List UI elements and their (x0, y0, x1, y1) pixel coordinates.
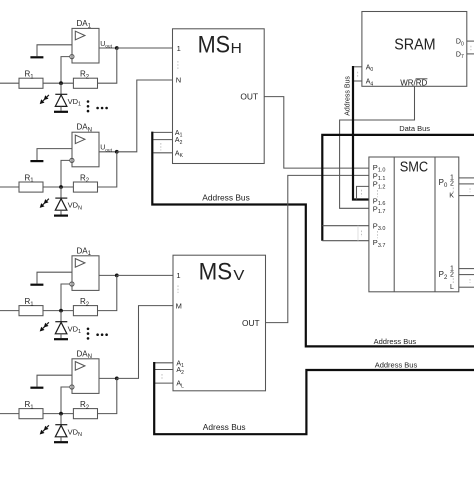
SMC P1 stub-box ellipsis (361, 190, 363, 197)
MSV input ellipsis (177, 285, 179, 293)
wire photodiode to ground (channel 4) (60, 437, 62, 441)
ground (channel 4) (30, 387, 43, 389)
wire op-amp U4 non-inverting input to ground (37, 375, 72, 386)
svg-text:Address Bus: Address Bus (202, 192, 249, 202)
light arrow 2 (channel 3) (43, 326, 45, 328)
SMC P2 pin L stub (459, 286, 474, 288)
wire node to photodiode (channel 3) (60, 311, 62, 322)
wire R1 to node to R2 (channel 2) (43, 186, 73, 188)
SMC P0 pin K stub (459, 195, 474, 197)
SMC P2 pin 2 stub (459, 274, 474, 276)
wire feedback from output to R2 (channel 2) (98, 152, 117, 187)
svg-text:Data Bus: Data Bus (399, 124, 430, 133)
ground below photodiode (channel 2) (54, 215, 68, 217)
wire node to photodiode (channel 2) (60, 187, 62, 198)
address bus to SRAM A0-A4 (thick) (353, 66, 369, 200)
node summing junction (channel 1) (59, 81, 63, 85)
wire photodiode to ground (channel 2) (60, 210, 62, 214)
MSV address pins ellipsis (161, 374, 163, 379)
resistor R1 (channel 3) (19, 306, 43, 316)
op-amp U3 amplifier triangle (75, 259, 85, 268)
SMC P0 pins ellipsis (between 2 and K) (452, 188, 454, 193)
SRAM pin D0 stub (467, 40, 474, 42)
svg-text:Adress Bus: Adress Bus (203, 422, 246, 432)
SRAM address pins ellipsis (357, 72, 359, 77)
address bus MSH to SMC P0 (thick) (152, 132, 474, 347)
ground below photodiode (channel 4) (54, 441, 68, 443)
wire WR/RD to SMC P1.7 (340, 86, 415, 208)
ground below photodiode (channel 3) (54, 338, 68, 340)
svg-text:1: 1 (176, 271, 180, 280)
photodiode VD1 cathode bar (55, 321, 67, 323)
wire op-amp U1 inverting input (61, 57, 70, 84)
resistor R1 (channel 2) (19, 182, 43, 192)
op-amp U4 inverting input circle (70, 385, 74, 389)
op-amp U4 amplifier triangle (75, 362, 85, 371)
resistor R2 (channel 4) (73, 409, 97, 419)
multiplexer MSH body (173, 29, 265, 164)
SMC P0 pin 2 stub (459, 183, 474, 185)
wire op-amp U3 output (99, 274, 117, 276)
wire op-amp U4 output (99, 377, 117, 379)
resistor R2 (channel 3) (73, 306, 97, 316)
svg-text:2: 2 (450, 181, 454, 188)
SRAM data pins ellipsis (470, 46, 472, 51)
MSH pin A2 stub (153, 139, 172, 141)
op-amp U2 body (72, 132, 99, 167)
SRAM pin A0 stub (353, 66, 362, 68)
photodiode VDN cathode bar (55, 197, 67, 199)
svg-text:Address Bus: Address Bus (344, 76, 351, 116)
ellipsis dots between channel 1 and N (vertical group) (87, 328, 90, 331)
svg-text:V: V (233, 268, 244, 284)
SMC P2 port ellipsis (outside) (469, 279, 471, 283)
svg-text:MS: MS (198, 32, 231, 59)
op-amp U1 inverting input circle (70, 55, 74, 59)
wire channelN output to MSH input N (117, 80, 173, 152)
wire op-amp U1 non-inverting input to ground (37, 45, 72, 56)
photodiode VD1 triangle (55, 322, 67, 334)
light arrow 2 (channel 1) (43, 99, 45, 101)
op-amp U3 body (72, 256, 99, 291)
wire channel1 output to MSH input 1 (117, 47, 173, 49)
photodiode VDN triangle (55, 425, 67, 437)
op-amp U2 inverting input circle (70, 158, 74, 162)
ground (channel 3) (30, 284, 43, 286)
svg-text:K: K (449, 192, 454, 199)
wire op-amp U2 output (99, 151, 117, 153)
light arrow 1 (channel 2) (47, 199, 49, 201)
wire op-amp U3 inverting input (61, 284, 70, 311)
op-amp U4 body (72, 359, 99, 394)
photodiode VD1 triangle (55, 95, 67, 107)
node output junction (channel 4) (115, 377, 119, 381)
SMC P3 port ellipsis (377, 231, 379, 238)
wire channel1 output to MSV input 1 (117, 274, 173, 276)
wire op-amp U1 output (99, 47, 117, 49)
wire input to R1 (channel 1) (0, 82, 19, 84)
MSV pin AL stub (155, 382, 173, 384)
wire channelM output to MSV input M (117, 306, 173, 379)
svg-text:M: M (176, 302, 182, 311)
svg-text:N: N (176, 75, 181, 84)
SMC P3 bracket ellipsis (361, 231, 363, 238)
wire photodiode to ground (channel 1) (60, 106, 62, 110)
op-amp U1 body (72, 28, 99, 63)
resistor R1 (channel 4) (19, 409, 43, 419)
svg-text:MS: MS (199, 259, 233, 286)
ground (channel 1) (30, 56, 43, 58)
svg-text:Address Bus: Address Bus (374, 337, 417, 346)
svg-text:H: H (231, 41, 242, 57)
SRAM pin A4 stub (353, 80, 362, 82)
wire input to R1 (channel 2) (0, 186, 19, 188)
svg-text:L: L (450, 284, 454, 291)
light arrow 2 (channel 4) (43, 429, 45, 431)
wire MSV OUT to SMC P1.1 (266, 175, 369, 322)
wire feedback from output to R2 (channel 1) (98, 48, 117, 83)
wire R1 to node to R2 (channel 4) (43, 413, 73, 415)
light arrow 1 (channel 4) (47, 425, 49, 427)
svg-text:SRAM: SRAM (394, 36, 435, 53)
wire op-amp U3 non-inverting input to ground (37, 272, 72, 283)
wire op-amp U2 non-inverting input to ground (37, 149, 72, 160)
op-amp U2 amplifier triangle (75, 135, 85, 144)
wire input to R1 (channel 3) (0, 310, 19, 312)
node output junction (channel 2) (115, 150, 119, 154)
resistor R2 (channel 1) (73, 78, 97, 88)
SMC left column divider (393, 157, 395, 292)
wire photodiode to ground (channel 3) (60, 334, 62, 338)
light arrow 2 (channel 2) (43, 203, 45, 205)
wire R1 to node to R2 (channel 3) (43, 310, 73, 312)
data bus SRAM D0-D7 to SMC P3 (thick) (322, 135, 474, 241)
microcontroller SMC body (369, 157, 459, 292)
SMC pin P1.2 stub (357, 186, 369, 199)
MSV pin A1 stub (155, 362, 173, 364)
node summing junction (channel 4) (59, 412, 63, 416)
SRAM pin D7 stub (467, 53, 474, 55)
SMC pin P3.0 stub (322, 225, 369, 227)
SMC right column divider (434, 157, 436, 292)
memory SRAM body (362, 12, 467, 87)
SMC P0 port ellipsis (outside) (469, 188, 471, 192)
wire MSH OUT to SMC P1.0 (264, 97, 369, 169)
op-amp U1 amplifier triangle (75, 31, 85, 40)
ground below photodiode (channel 1) (54, 111, 68, 113)
resistor R2 (channel 2) (73, 182, 97, 192)
multiplexer MSV body (173, 255, 266, 391)
wire node to photodiode (channel 4) (60, 414, 62, 425)
SMC P1 port ellipsis (377, 190, 379, 197)
MSH address pins ellipsis (160, 143, 162, 151)
photodiode VDN triangle (55, 199, 67, 211)
MSH pin AK stub (153, 152, 172, 154)
SMC P2 pins ellipsis (between 2 and L) (452, 278, 454, 283)
wire feedback from output to R2 (channel 4) (98, 378, 117, 413)
svg-text:OUT: OUT (240, 93, 258, 102)
op-amp U3 inverting input circle (70, 282, 74, 286)
SMC P3 port bracket (357, 226, 359, 241)
svg-text:Address Bus: Address Bus (375, 361, 418, 370)
light arrow 1 (channel 3) (47, 322, 49, 324)
wire node to photodiode (channel 1) (60, 83, 62, 94)
MSH pin A1 stub (153, 131, 172, 133)
SMC pin P3.7 stub (322, 240, 369, 242)
photodiode VD1 cathode bar (55, 93, 67, 95)
svg-text:OUT: OUT (242, 319, 260, 328)
wire op-amp U2 inverting input (61, 160, 70, 187)
wire op-amp U4 inverting input (61, 387, 70, 414)
wire feedback from output to R2 (channel 3) (98, 275, 117, 310)
MSH input ellipsis (177, 61, 179, 69)
ellipsis dots between channel 1 and N (horizontal group) (87, 100, 90, 103)
wire input to R1 (channel 4) (0, 413, 19, 415)
SMC P2 pin 1 stub (459, 268, 474, 270)
ground (channel 2) (30, 160, 43, 162)
svg-text:SMC: SMC (400, 159, 429, 175)
SMC P0 pin 1 stub (459, 177, 474, 179)
photodiode VDN cathode bar (55, 424, 67, 426)
MSV pin A2 stub (155, 369, 173, 371)
wire R1 to node to R2 (channel 1) (43, 82, 73, 84)
light arrow 1 (channel 1) (47, 95, 49, 97)
node output junction (channel 1) (115, 46, 119, 50)
svg-text:1: 1 (177, 44, 181, 53)
address bus MSV to SMC P2 (thick) (154, 362, 474, 434)
resistor R1 (channel 1) (19, 78, 43, 88)
node summing junction (channel 3) (59, 309, 63, 313)
svg-text:WR/RD: WR/RD (400, 79, 427, 88)
node summing junction (channel 2) (59, 185, 63, 189)
svg-text:2: 2 (450, 271, 454, 278)
node output junction (channel 3) (115, 274, 119, 278)
